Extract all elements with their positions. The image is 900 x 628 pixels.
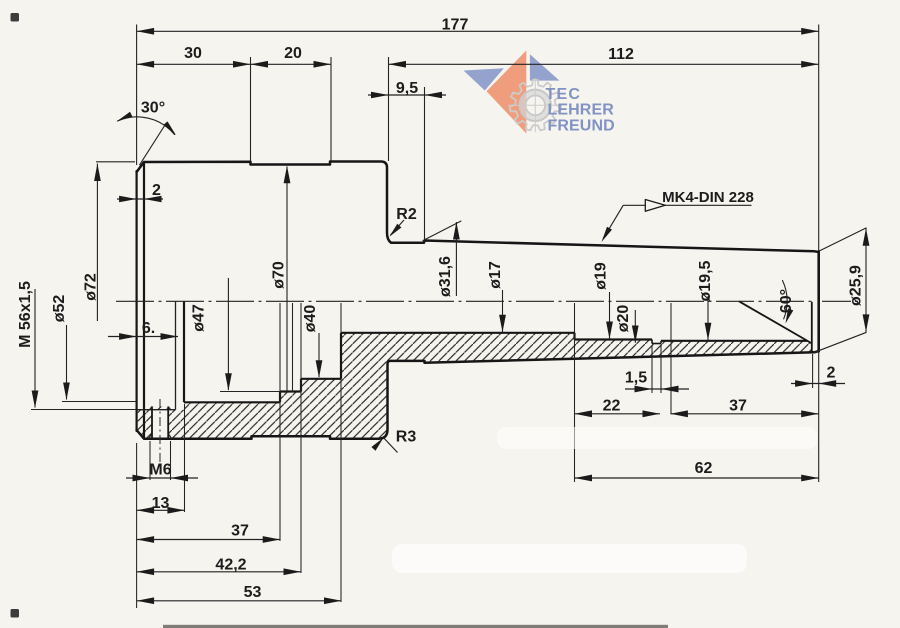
dim dia19 line [609,292,611,339]
ext step 331 [330,57,332,161]
dim dia20 line [634,310,636,343]
svg-text:22: 22 [603,398,621,415]
label MK4 taper symbol [645,200,665,212]
dim 13 arrow left [137,507,155,514]
svg-text:30: 30 [184,45,202,62]
dim dia47 ext line [220,391,280,393]
svg-text:2: 2 [827,365,836,382]
logo blue triangle left [464,68,504,90]
dim 2r line [791,383,845,385]
dim 22 line [575,413,661,415]
dim dia20 arrow [632,326,639,344]
label MK4 leader line [623,204,751,206]
dim 22 arrow right [643,410,661,417]
dim 53 arrow right [324,597,342,604]
svg-text:M6: M6 [149,462,171,479]
ext groove left [651,345,653,393]
dim dia40 arrow [316,360,323,378]
svg-text:9,5: 9,5 [396,80,418,97]
dim 177 arrow left [137,28,155,35]
ext right face bottom [818,353,820,483]
dim 13 line [137,509,185,511]
bore step 52-47 [279,392,281,403]
dim dia47 line [227,278,229,390]
dim 112 arrow left [389,61,407,68]
dim 37l line [137,539,281,541]
svg-text:ø47: ø47 [191,304,208,332]
dim 60deg arc [783,281,788,319]
center hole end face [811,302,813,352]
bore dia47 line [280,390,301,392]
main centerline [116,300,816,302]
ext dia72 level [96,161,135,163]
label R3 leader [384,438,398,453]
dim 53 line [137,600,342,602]
ext collar face 388 [388,57,390,161]
M6 hole surface chamfer left [149,434,153,439]
dim M6 line [126,477,198,479]
ext M6 left [149,441,151,480]
dim dia25.9 arrow bottom [863,314,870,332]
svg-text:ø17: ø17 [487,261,504,289]
scan artifact bottom-left dot [11,609,20,618]
logo gear rim circle [520,90,551,121]
scan artifact white smear 1 [392,544,747,573]
dim 20 arrow right [314,61,332,68]
dim 30deg arc [118,117,175,135]
dim 37l arrow right [263,536,281,543]
bore dia19.5 line [661,340,807,342]
svg-text:M 56x1,5: M 56x1,5 [17,281,34,348]
ext bore37 280 [279,303,281,541]
dim 30 arrow left [137,61,155,68]
logo gear bore circle [526,96,546,116]
svg-text:R2: R2 [396,206,417,223]
M6 hole bottom chamfer right [168,407,171,411]
dim 37l arrow left [137,536,155,543]
label R2 leader [391,220,405,235]
ext 37b start 671 [670,303,672,414]
svg-text:ø20: ø20 [615,305,632,333]
bore groove right face [660,341,662,344]
dim dia19.5 arrow [705,323,712,341]
svg-text:1,5: 1,5 [625,370,647,387]
svg-text:ø19,5: ø19,5 [697,260,714,301]
dim 1.5 line [625,388,689,390]
dim M56 line [34,289,36,408]
svg-text:60°: 60° [778,289,795,313]
dim 62 arrow left [575,475,593,482]
dim 20 line [251,63,332,65]
dim 37r line [670,413,818,415]
svg-text:62: 62 [695,460,713,477]
scan artifact white smear 2 [497,427,817,449]
bore dia19 line [575,338,653,340]
bore dia52 line [184,401,280,403]
bore groove left face [651,340,653,344]
ext M56 level [31,409,136,411]
ext thread end bottom [184,404,186,512]
part chamfer edge line [143,162,145,439]
dim 2r arrow left [795,380,813,387]
dim 42.2 arrow left [137,568,155,575]
dim 6 line [108,336,178,338]
svg-text:42,2: 42,2 [215,557,246,574]
M6 hole surface chamfer right [168,434,172,439]
M6 hole centerline [159,399,161,474]
dim dia17 line [502,290,504,332]
dim dia52 arrow [63,383,70,401]
ext step 574 [574,303,576,482]
ext bore53 341 [340,303,342,333]
bore step 17-19 [573,333,575,340]
ext taper slant dia31.6 [423,221,462,241]
dim 42.2 line [137,571,301,573]
svg-text:ø40: ø40 [302,305,319,333]
dim 9.5 arrow right [425,92,443,99]
ext groove right [660,345,662,393]
svg-text:ø31,6: ø31,6 [437,256,454,297]
dim 37r arrow left [670,410,688,417]
dim 2 line [117,198,163,200]
dim 1.5 arrow right [661,386,679,393]
dim dia72 arrow [94,164,101,182]
svg-text:FREUND: FREUND [548,117,615,134]
dim dia17 arrow [499,315,506,333]
dim dia52 line [66,325,68,400]
dim dia31.6 arrow [453,222,460,240]
dim 9.5 arrow left [371,92,389,99]
svg-text:37: 37 [231,523,249,540]
ext right face top [818,25,820,251]
dim M56 arrow [32,391,39,409]
dim 30 arrow right [233,61,251,68]
svg-text:ø72: ø72 [83,273,100,301]
dim 112 arrow right [801,61,819,68]
dim dia40 line [318,333,320,377]
dim dia25.9 arrow top [863,228,870,246]
M6 hole left line [151,407,153,439]
svg-text:37: 37 [729,398,747,415]
dim 53 arrow left [137,597,155,604]
dim dia19.5 line [707,296,709,340]
ext step 250 [250,57,252,161]
ext taper start 424 [424,87,426,240]
logo gear crosshair [508,104,562,106]
dim dia25.9 line [865,228,867,332]
part left face [136,171,138,431]
svg-text:R3: R3 [396,429,417,446]
dim 6 arrow left [119,333,137,340]
logo gear ring [523,93,549,119]
dim dia47 arrow [225,373,232,391]
ext M6 right [170,441,172,480]
bore thread end line thin [175,301,177,409]
label MK4 leader diagonal [603,205,623,239]
dim 112 line [389,63,819,65]
bore M56 crest line [137,409,176,411]
dim dia70 line [286,167,288,393]
bore dia17 line [341,332,575,334]
dim 2r arrow right [819,380,837,387]
center hole 60deg cone [739,301,812,343]
dim 62 arrow right [801,475,819,482]
part outer profile top [137,162,819,253]
dim 20 arrow left [251,61,269,68]
dim 62 line [575,477,819,479]
dim 177 line [137,30,819,32]
dim 30deg arrow right [164,121,177,135]
part outer profile bottom [137,351,819,439]
bore dia40 line [301,378,341,380]
ext left face bottom [136,443,138,608]
svg-text:MK4-DIN 228: MK4-DIN 228 [662,189,754,206]
ext oblique 25.9 bottom [815,332,867,352]
dim 13 arrow right [167,507,185,514]
ext left face top [136,25,138,166]
ext bore42.2 301 [300,303,302,573]
bore groove dia20 line [652,343,661,345]
dim 177 arrow right [801,28,819,35]
dim dia31.6 line [455,222,457,296]
svg-text:ø19: ø19 [593,262,610,290]
ext dia52 level [62,401,136,403]
dim M6 arrow right [171,475,189,482]
ext 292.5 [292,303,294,392]
dim 2 arrow right [144,196,162,203]
dim dia72 line [96,164,98,322]
dim 60deg arrow [786,308,794,323]
bore end face 40 [340,333,342,379]
ext chamfer2 812 [812,354,814,388]
dim 9.5 line [368,94,446,96]
scan artifact bottom edge [163,625,668,628]
section hatch [137,333,815,439]
ext oblique 25.9 top [819,228,867,252]
part right face [817,251,820,351]
logo blue triangle right [530,54,560,80]
dim M6 arrow left [133,475,151,482]
svg-text:30°: 30° [141,100,165,117]
svg-text:LEHRER: LEHRER [548,102,615,119]
svg-text:20: 20 [284,45,302,62]
svg-text:ø52: ø52 [51,295,68,323]
logo orange triangle [487,51,527,134]
svg-text:177: 177 [442,17,469,34]
dim 37r arrow right [801,410,819,417]
svg-text:ø70: ø70 [271,261,288,289]
dim dia19 arrow [606,322,613,340]
dim 22 arrow left [575,410,593,417]
logo gear teeth [510,80,561,131]
svg-text:2: 2 [152,182,161,199]
scan artifact top-left dot [11,13,20,22]
ext chamfer 30deg [139,123,166,165]
svg-text:53: 53 [244,584,262,601]
M6 hole bottom chamfer left [149,407,152,411]
dim dia70 arrow [284,166,291,184]
svg-text:112: 112 [608,46,634,63]
dim 42.2 arrow right [284,568,302,575]
svg-text:ø25,9: ø25,9 [848,265,865,306]
svg-text:13: 13 [152,495,170,512]
bore thread end line [183,301,185,402]
M6 hole right line [167,407,169,439]
dim 30 line [137,63,251,65]
bore step 47-40 [300,379,302,392]
dim 2 arrow left [119,196,137,203]
dim 30deg arrow left [117,112,133,121]
dim 6 arrow right [161,333,179,340]
dim 1.5 arrow left [635,386,653,393]
svg-text:6.: 6. [142,320,155,337]
